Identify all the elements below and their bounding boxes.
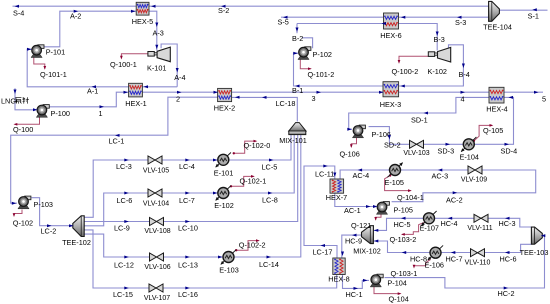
arrow A-3 into K-101: [155, 45, 158, 50]
arrow into P-100: [33, 108, 38, 111]
wire S-1 into TEE-104: [499, 9, 547, 11]
splitter/mixer TEE-103: [520, 227, 549, 257]
svg-text:Q-100-1: Q-100-1: [110, 60, 137, 69]
wire B-1 HEX-3 to P-102: [294, 53, 384, 86]
energy stream Q-105: [474, 125, 492, 140]
arrow into HEX-2: [214, 91, 219, 94]
wire A-4/A-1 through HEX-1 to P-101: [27, 49, 177, 87]
energy stream Q-103-2: [402, 222, 424, 234]
svg-text:5: 5: [542, 95, 546, 104]
wire LC-17 riser LC-11 to HEX-7: [304, 166, 337, 258]
arrow LC-5: [269, 159, 274, 162]
arrow 2: [177, 91, 182, 94]
svg-text:LC-16: LC-16: [178, 290, 198, 299]
wire TEE-103 to HC-6 HC-7 HC-8 to MIX-102: [374, 241, 532, 253]
svg-text:HC-6: HC-6: [500, 255, 517, 264]
valve VLV-107: [144, 284, 170, 302]
svg-text:HEX-8: HEX-8: [328, 275, 350, 284]
energy stream Q-102-2: [236, 241, 258, 251]
arrow A-3: [155, 23, 158, 28]
svg-text:P-104: P-104: [387, 279, 406, 288]
arrow LC-18: [262, 96, 267, 99]
arrow HC-4: [448, 217, 453, 220]
arrow LC-12 row a2: [185, 256, 190, 259]
valve VLV-109: [461, 166, 487, 184]
svg-text:HEX-7: HEX-7: [326, 193, 348, 202]
svg-text:S-2: S-2: [218, 6, 229, 15]
svg-text:SD-1: SD-1: [411, 115, 428, 124]
svg-text:AC-2: AC-2: [446, 195, 463, 204]
arrow S-1: [532, 8, 537, 11]
svg-text:E-105: E-105: [385, 178, 404, 187]
wire AC-4 AC-3 AC-2 loop: [340, 170, 536, 202]
arrow AC-2: [453, 191, 458, 194]
arrow LC-6 row a2: [185, 192, 190, 195]
arrow LC-1: [115, 134, 120, 137]
cooler E-106: [425, 245, 444, 269]
svg-text:P-103: P-103: [34, 200, 53, 209]
svg-text:LC-4: LC-4: [179, 162, 195, 171]
splitter/mixer TEE-104: [483, 1, 512, 31]
arrow S-3: [457, 16, 462, 19]
arrow A-2: [74, 10, 79, 13]
heat exchanger HEX-6: [380, 13, 402, 40]
svg-text:TEE-103: TEE-103: [520, 248, 549, 257]
svg-text:2: 2: [176, 94, 180, 103]
svg-text:P-100: P-100: [51, 109, 70, 118]
svg-text:P-105: P-105: [394, 206, 413, 215]
svg-text:K-102: K-102: [428, 67, 447, 76]
wire TEE-102 out 4 / row LC-15 to HEX-8: [84, 230, 337, 288]
svg-text:Q-105: Q-105: [483, 126, 503, 135]
svg-text:AC-3: AC-3: [432, 172, 449, 181]
wire HEX-6 hot side to B-3 to K-102: [297, 24, 437, 51]
pump P-103: [18, 196, 53, 209]
svg-text:HEX-6: HEX-6: [380, 31, 402, 40]
wire HEX-4 to SD-1 to P-106: [349, 97, 489, 129]
wire TEE-102 out 1 / row LC-3 to MIX-101: [84, 135, 291, 218]
svg-text:3: 3: [312, 94, 316, 103]
svg-text:VLV-107: VLV-107: [144, 295, 170, 302]
energy stream Q-100-1: [121, 54, 147, 58]
svg-text:SD-4: SD-4: [501, 147, 518, 156]
svg-text:LC-7: LC-7: [179, 196, 195, 205]
energy stream Q-104: [374, 286, 400, 294]
pump P-101: [31, 45, 65, 58]
svg-text:LNG: LNG: [1, 97, 16, 106]
pump P-104: [370, 274, 407, 287]
arrow HC-9: [352, 234, 357, 237]
svg-text:E-104: E-104: [460, 152, 479, 161]
arrow LC-3 row a1: [124, 159, 129, 162]
energy stream Q-101-2: [300, 56, 310, 69]
svg-text:LC-8: LC-8: [262, 196, 278, 205]
wire B-2 to P-102: [302, 38, 313, 49]
svg-text:HC-5: HC-5: [394, 220, 411, 229]
svg-text:LC-6: LC-6: [117, 196, 133, 205]
svg-text:VLV-110: VLV-110: [465, 260, 491, 267]
valve VLV-106: [144, 253, 170, 271]
svg-text:S-4: S-4: [13, 9, 24, 18]
svg-text:A-3: A-3: [153, 29, 164, 38]
svg-text:Q-103-1: Q-103-1: [391, 269, 418, 278]
wire LNG feed to P-100: [15, 88, 35, 110]
svg-text:Q-104: Q-104: [389, 294, 409, 303]
svg-text:Q-100-2: Q-100-2: [392, 67, 419, 76]
arrow LC-15 row a2: [185, 287, 190, 290]
arrow 4: [461, 91, 466, 94]
arrow LC-12 row a1: [124, 256, 129, 259]
arrow S-3 into HEX-6: [401, 16, 406, 19]
svg-text:LC-15: LC-15: [113, 290, 133, 299]
label LNG feed CJK glyphs (raw-material): [15, 97, 28, 103]
svg-text:Q-101-2: Q-101-2: [308, 70, 335, 79]
svg-text:A-4: A-4: [174, 73, 185, 82]
splitter/mixer TEE-102: [62, 216, 91, 247]
arrow LNG feed: [14, 90, 17, 95]
wire stream 1 P-100 to HEX-1: [49, 92, 128, 107]
arrow SD-3: [446, 143, 451, 146]
arrow SD-2: [388, 135, 391, 140]
arrow LC-15 row a1: [124, 287, 129, 290]
svg-text:E-107: E-107: [420, 224, 439, 233]
arrow B-4: [462, 64, 465, 69]
svg-text:VLV-105: VLV-105: [143, 168, 169, 175]
svg-text:HEX-3: HEX-3: [380, 100, 402, 109]
arrow HEX-6 out: [382, 22, 387, 25]
arrow A-2 into HEX-5: [131, 10, 136, 13]
arrow into HEX-5 top: [151, 5, 156, 8]
energy stream Q-102-0: [234, 141, 256, 153]
heat exchanger HEX-4: [486, 87, 508, 113]
svg-text:HC-8: HC-8: [410, 255, 427, 264]
svg-text:HEX-1: HEX-1: [125, 99, 147, 108]
svg-text:Q-106: Q-106: [340, 149, 360, 158]
svg-text:E-103: E-103: [219, 265, 238, 274]
svg-text:E-106: E-106: [425, 261, 444, 270]
svg-text:TEE-102: TEE-102: [62, 238, 91, 247]
svg-text:S-5: S-5: [278, 18, 289, 27]
energy stream Q-106: [351, 138, 356, 147]
svg-text:Q-103-2: Q-103-2: [390, 235, 417, 244]
svg-text:E-101: E-101: [214, 168, 233, 177]
wire A-3 HEX-5 to K-101: [149, 11, 157, 50]
wire process line 2-3-4-5: [142, 91, 543, 93]
energy stream Q-101-1: [34, 58, 45, 69]
svg-text:AC-1: AC-1: [344, 206, 361, 215]
arrow LC-18 into HEX-2: [235, 96, 240, 99]
energy stream Q-121: [376, 213, 381, 220]
arrow into E-103: [218, 256, 223, 259]
arrow into E-101: [213, 159, 218, 162]
arrow SD-1 into P-106: [347, 128, 352, 131]
arrow 1 into HEX-1: [124, 91, 129, 94]
svg-text:B-1: B-1: [292, 86, 303, 95]
valve VLV-108: [144, 218, 170, 236]
cooler E-105: [385, 162, 404, 187]
svg-text:HC-9: HC-9: [345, 236, 362, 245]
cooler E-101: [214, 153, 233, 178]
wire S-3 TEE-104 to HEX-6 to S-5: [281, 16, 489, 18]
svg-text:LC-5: LC-5: [262, 163, 278, 172]
svg-text:B-3: B-3: [434, 35, 445, 44]
wire MIX-101 out / LC-18 to HEX-2: [218, 97, 298, 121]
svg-text:MIX-102: MIX-102: [353, 247, 381, 256]
svg-text:HC-3: HC-3: [499, 219, 516, 228]
compressor K-101: [147, 47, 170, 72]
svg-text:Q-102: Q-102: [13, 219, 33, 228]
svg-text:S-1: S-1: [528, 11, 539, 20]
svg-text:A-1: A-1: [87, 87, 98, 96]
arrow into MIX-102 bottom: [374, 240, 379, 243]
svg-text:Q-102-0: Q-102-0: [244, 141, 271, 150]
energy stream Q-100: [15, 116, 40, 125]
svg-text:Q-101-1: Q-101-1: [40, 70, 67, 79]
energy stream Q-102-1: [231, 176, 254, 186]
arrow HC-8: [402, 251, 407, 254]
svg-text:HC-1: HC-1: [346, 290, 363, 299]
svg-text:SD-3: SD-3: [438, 147, 455, 156]
splitter/mixer MIX-102: [353, 226, 381, 256]
arrow 5: [534, 91, 539, 94]
wire HC-1 HEX-8 to P-104: [343, 275, 370, 289]
arrow LC-3 row a2: [185, 159, 190, 162]
wire MIX-102 out / HC-9 to HEX-8: [342, 235, 362, 258]
svg-text:HC-7: HC-7: [446, 255, 463, 264]
svg-text:LC-1: LC-1: [109, 137, 125, 146]
svg-text:4: 4: [461, 94, 465, 103]
arrow into P-103: [12, 202, 16, 205]
svg-text:Q-121: Q-121: [351, 221, 371, 230]
arrow B-4 into HEX-3: [400, 85, 405, 88]
svg-text:VLV-104: VLV-104: [143, 201, 169, 208]
arrow A-4 into HEX-1: [144, 85, 149, 88]
svg-text:HEX-5: HEX-5: [132, 17, 154, 26]
svg-text:LC-18: LC-18: [276, 99, 296, 108]
energy stream Q-104-1: [385, 176, 411, 191]
svg-text:LC-11: LC-11: [315, 169, 334, 178]
valve VLV-110: [465, 249, 491, 267]
svg-text:LC-3: LC-3: [116, 162, 132, 171]
arrow S-2: [221, 5, 226, 8]
wire LC-1 to P-103: [11, 97, 218, 203]
cooler E-103: [219, 250, 238, 275]
svg-text:VLV-103: VLV-103: [403, 150, 429, 157]
arrow LC-17: [321, 244, 326, 247]
cooler E-107: [420, 211, 439, 233]
svg-text:VLV-111: VLV-111: [467, 225, 492, 232]
arrow SD-4 into HEX-4: [509, 96, 514, 99]
arrow 1: [100, 105, 105, 108]
arrow LC-11: [323, 165, 328, 168]
compressor K-102: [428, 47, 451, 75]
arrow into P-104: [363, 279, 368, 282]
arrow 3 into HEX-3: [379, 91, 384, 94]
svg-text:LC-13: LC-13: [178, 260, 198, 269]
energy stream Q-100-2: [399, 56, 428, 62]
svg-text:B-4: B-4: [459, 70, 470, 79]
svg-text:LC-9: LC-9: [114, 224, 130, 233]
arrow LC-2: [47, 224, 52, 227]
pump P-100: [36, 105, 70, 118]
arrow HC-5: [401, 217, 406, 220]
svg-text:K-101: K-101: [147, 63, 166, 72]
wire AC-1 HEX-7 to P-105: [335, 193, 376, 207]
svg-text:A-2: A-2: [70, 11, 81, 20]
svg-text:P-106: P-106: [372, 130, 391, 139]
arrow AC-1: [366, 205, 371, 208]
arrow AC-3: [438, 169, 443, 172]
svg-text:TEE-104: TEE-104: [483, 22, 512, 31]
arrow SD-1: [424, 112, 429, 115]
arrow into P-105: [373, 205, 378, 208]
svg-text:Q-100: Q-100: [13, 125, 33, 134]
svg-text:LC-14: LC-14: [259, 260, 279, 269]
wire TEE-102 out 2 / row LC-9 to MIX-101: [84, 135, 298, 222]
valve VLV-104: [143, 189, 169, 208]
heat exchanger HEX-5: [132, 2, 154, 26]
svg-text:Q-102-1: Q-102-1: [240, 177, 267, 186]
heat exchanger HEX-2: [214, 88, 236, 112]
wire P-106 out SD-2 SD-3 SD-4 to HEX-4: [369, 97, 514, 144]
energy stream Q-103-1: [414, 259, 431, 267]
wire K-102 outlet / B-4 to HEX-3: [383, 45, 463, 86]
svg-text:S-3: S-3: [455, 18, 466, 27]
arrow 3: [317, 91, 322, 94]
svg-text:SD-2: SD-2: [384, 141, 401, 150]
wire P-104 out / HC-2 to TEE-103: [385, 236, 545, 288]
arrow LC-9 row a1: [124, 220, 129, 223]
cooler E-104: [460, 137, 479, 161]
wire TEE-102 out 3 / row LC-6 to MIX-101: [84, 135, 294, 226]
arrow into MIX-102 top: [374, 229, 379, 232]
svg-text:P-102: P-102: [313, 50, 332, 59]
wire P-101 outlet / A-2 to HEX-5: [43, 11, 136, 47]
svg-text:LC-17: LC-17: [313, 247, 333, 256]
svg-text:VLV-106: VLV-106: [144, 264, 170, 271]
arrow LC-9 row a2: [185, 220, 190, 223]
pump P-105: [376, 202, 413, 215]
svg-text:VLV-109: VLV-109: [461, 177, 487, 184]
heat exchanger HEX-3: [380, 82, 402, 109]
svg-text:HC-2: HC-2: [498, 289, 515, 298]
wire S-2 to S-4 through HEX-5: [13, 5, 489, 7]
svg-text:E-102: E-102: [214, 201, 233, 210]
arrow into TEE-102: [69, 224, 74, 227]
svg-text:HEX-2: HEX-2: [214, 103, 236, 112]
arrow HC-3: [505, 217, 510, 220]
arrow into P-101: [27, 48, 32, 51]
svg-text:HC-4: HC-4: [441, 219, 458, 228]
arrow HC-9 into HEX-8: [341, 252, 344, 257]
valve VLV-105: [143, 156, 169, 175]
wire K-101 outlet / A-4: [161, 44, 177, 87]
heat exchanger HEX-7: [326, 179, 348, 202]
arrow HC-1: [354, 287, 359, 290]
arrow S-5: [283, 16, 288, 19]
wire P-103 out / LC-2 to TEE-102: [32, 198, 73, 226]
wire TEE-102 out 5 / row LC-12 to MIX-101: [84, 135, 301, 258]
arrow into P-102: [293, 52, 298, 55]
arrow A-1: [92, 85, 97, 88]
arrow HC-6: [505, 251, 510, 254]
arrow B-3: [436, 32, 439, 37]
heat exchanger HEX-8: [328, 258, 350, 284]
arrow AC-4: [358, 169, 363, 172]
arrow LC-14: [267, 256, 272, 259]
arrow HC-2: [504, 287, 509, 290]
svg-text:Q-102-2: Q-102-2: [239, 240, 266, 249]
svg-text:VLV-108: VLV-108: [144, 228, 170, 235]
arrow B-2: [296, 28, 299, 33]
svg-text:1: 1: [99, 109, 103, 118]
svg-text:MIX-101: MIX-101: [279, 136, 307, 145]
wire TEE-103 to HC-3 HC-4 HC-5 to MIX-102: [374, 218, 532, 230]
arrow LC-8: [268, 192, 273, 195]
svg-text:B-2: B-2: [292, 34, 303, 43]
arrow SD-4: [505, 143, 510, 146]
svg-text:LC-2: LC-2: [41, 227, 57, 236]
arrow HC-7: [451, 251, 456, 254]
svg-text:Q-104-1: Q-104-1: [397, 193, 424, 202]
svg-text:P-101: P-101: [46, 48, 65, 57]
arrow into TEE-103: [541, 234, 546, 237]
valve VLV-111: [467, 214, 492, 232]
pump P-106: [352, 125, 391, 139]
arrow A-4: [176, 68, 179, 73]
pump P-102: [298, 47, 332, 60]
svg-text:LC-12: LC-12: [114, 260, 134, 269]
valve VLV-103: [403, 140, 429, 157]
cooler E-102: [214, 186, 233, 210]
wire B-2 stub: [296, 24, 298, 34]
mixer MIX-101: [279, 123, 307, 145]
arrow B-1: [295, 85, 300, 88]
svg-text:HEX-4: HEX-4: [486, 104, 508, 113]
energy stream Q-102: [14, 210, 22, 216]
heat exchanger HEX-1: [125, 83, 147, 108]
arrow LC-6 row a1: [124, 192, 129, 195]
arrow LC-11 into HEX-7: [333, 173, 336, 178]
arrow into E-102: [213, 192, 218, 195]
arrow S-4: [15, 5, 20, 8]
svg-text:AC-4: AC-4: [353, 171, 370, 180]
svg-text:LC-10: LC-10: [178, 224, 198, 233]
